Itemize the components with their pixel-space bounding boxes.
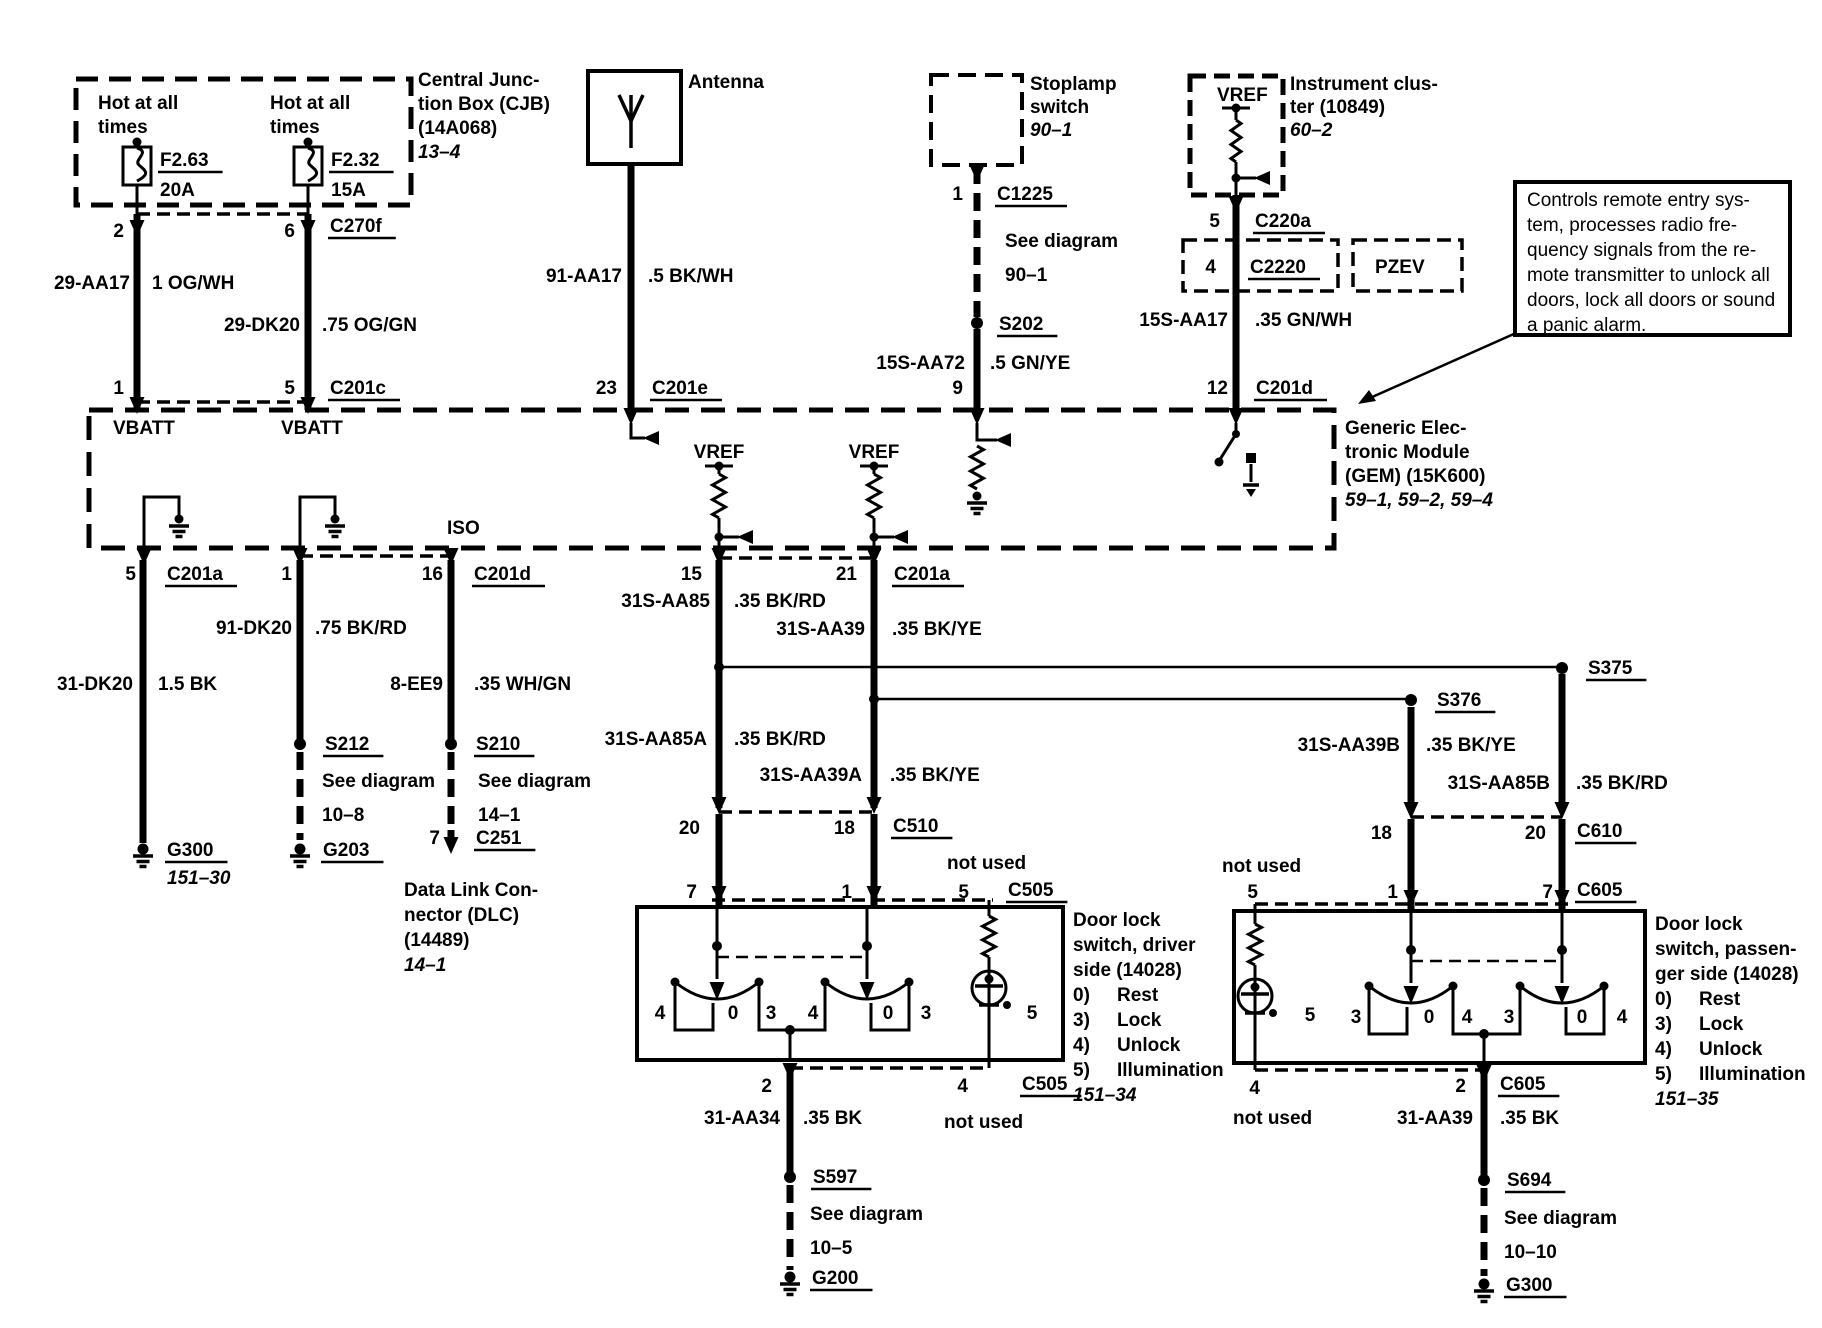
wire 29-AA17 1 OG/WH: [134, 214, 141, 410]
svg-text:0): 0): [1073, 985, 1090, 1006]
svg-text:1: 1: [952, 184, 963, 205]
svg-text:5: 5: [1247, 882, 1258, 903]
svg-text:20: 20: [679, 818, 700, 839]
svg-text:Hot at all: Hot at all: [270, 93, 350, 114]
svg-text:18: 18: [834, 818, 855, 839]
pin 2 arrow below box (passenger): [1477, 1065, 1492, 1082]
net line to S375: [719, 666, 1562, 669]
pin arrow at C605 (pin7): [1555, 890, 1570, 907]
svg-text:PZEV: PZEV: [1375, 257, 1425, 278]
rail between switches A/B: [759, 986, 825, 1030]
svg-text:not used: not used: [944, 1112, 1023, 1133]
svg-text:.35 BK/RD: .35 BK/RD: [734, 591, 826, 612]
svg-text:1: 1: [841, 882, 852, 903]
svg-text:C201d: C201d: [1256, 378, 1313, 399]
PZEV dashed box: [1353, 240, 1462, 291]
svg-text:Door lock: Door lock: [1073, 910, 1161, 931]
passenger switch C pole dashed link: [1411, 960, 1562, 963]
pin 2 arrow below box: [783, 1063, 798, 1080]
svg-text:C201a: C201a: [167, 564, 223, 585]
svg-text:See diagram: See diagram: [1504, 1208, 1617, 1229]
instrument cluster dashed box: [1190, 76, 1283, 195]
wire pin18 to passenger door lock: [1408, 819, 1415, 911]
svg-text:not used: not used: [1233, 1108, 1312, 1129]
svg-text:10–8: 10–8: [322, 805, 364, 826]
svg-text:0: 0: [728, 1003, 739, 1024]
svg-text:switch, driver: switch, driver: [1073, 935, 1196, 956]
svg-text:7: 7: [1542, 882, 1553, 903]
switch wiper arrow (x=717): [710, 982, 725, 1000]
svg-text:C605: C605: [1577, 880, 1623, 901]
pin arrow at C505 (pin1): [867, 886, 882, 903]
GEM internal resistor (stoplamp): [971, 446, 984, 489]
switch arc (x=867): [825, 982, 909, 999]
svg-text:4): 4): [1655, 1039, 1672, 1060]
wire 8-EE9 .35 WH/GN: [448, 560, 455, 740]
svg-text:VBATT: VBATT: [113, 418, 175, 439]
svg-text:4: 4: [1205, 257, 1216, 278]
svg-text:15S-AA17: 15S-AA17: [1139, 310, 1228, 331]
svg-text:S212: S212: [325, 734, 369, 755]
splice S202: [971, 317, 983, 329]
svg-text:1 OG/WH: 1 OG/WH: [152, 273, 234, 294]
svg-text:5: 5: [958, 882, 969, 903]
VREF tap (cluster): [1222, 107, 1250, 110]
svg-text:Controls remote entry sys-: Controls remote entry sys-: [1527, 190, 1750, 211]
pin arrow into GEM (pin12): [1229, 408, 1244, 425]
svg-text:151–35: 151–35: [1655, 1089, 1719, 1110]
svg-text:VREF: VREF: [849, 442, 900, 463]
note arrow to GEM: [1370, 333, 1516, 398]
svg-text:4: 4: [1249, 1078, 1260, 1099]
ground G300: [138, 844, 149, 855]
svg-text:VBATT: VBATT: [281, 418, 343, 439]
net line to S376: [874, 698, 1411, 701]
svg-text:S597: S597: [813, 1167, 857, 1188]
svg-text:tronic Module: tronic Module: [1345, 442, 1470, 463]
svg-text:4: 4: [655, 1003, 666, 1024]
wire 31S-AA39A: [871, 560, 878, 808]
pin arrow at C505 (pin7): [712, 886, 727, 903]
GEM internal switch (remote entry): [1235, 423, 1238, 432]
pin 5 stub (illumination feed): [988, 900, 991, 916]
junction on wire 31S-AA39A: [869, 694, 879, 704]
svg-text:VREF: VREF: [1217, 85, 1268, 106]
svg-text:.35 BK/YE: .35 BK/YE: [890, 765, 980, 786]
fuse F2.63: [133, 138, 142, 147]
wire 31-AA34 .35 BK: [787, 1064, 794, 1172]
svg-text:.35 BK/YE: .35 BK/YE: [1426, 735, 1516, 756]
antenna box: [588, 71, 681, 164]
svg-text:.35 BK/RD: .35 BK/RD: [734, 729, 826, 750]
svg-text:Rest: Rest: [1699, 989, 1741, 1010]
svg-text:0: 0: [883, 1003, 894, 1024]
wire to S202 (dashed): [974, 166, 981, 317]
driver switch A pole dashed link: [717, 956, 867, 959]
svg-text:C201d: C201d: [474, 564, 531, 585]
svg-text:6: 6: [284, 221, 295, 242]
wire below S210 (dashed): [448, 752, 455, 830]
svg-text:Lock: Lock: [1117, 1010, 1162, 1031]
svg-text:ger side (14028): ger side (14028): [1655, 964, 1799, 985]
svg-text:4: 4: [808, 1003, 819, 1024]
wire 91-AA17 .5 BK/WH: [628, 164, 635, 410]
svg-text:Door lock: Door lock: [1655, 914, 1743, 935]
ISO dashed line (C201d link): [300, 554, 451, 558]
svg-text:S694: S694: [1507, 1170, 1552, 1191]
connector C505 dashed line (bottom): [790, 1066, 989, 1070]
svg-text:15: 15: [681, 564, 703, 585]
connector C270f dashed line: [137, 212, 308, 216]
svg-text:(GEM) (15K600): (GEM) (15K600): [1345, 466, 1485, 487]
svg-text:16: 16: [422, 564, 443, 585]
stoplamp switch dashed box: [931, 75, 1022, 165]
switch pole wire (x=1411): [1410, 911, 1413, 947]
svg-text:times: times: [270, 117, 320, 138]
svg-text:Rest: Rest: [1117, 985, 1159, 1006]
svg-text:3): 3): [1655, 1014, 1672, 1035]
svg-text:F2.32: F2.32: [331, 150, 380, 171]
svg-text:91-DK20: 91-DK20: [216, 618, 292, 639]
Central Junction Box (CJB) dashed box: [76, 79, 411, 205]
svg-text:times: times: [98, 117, 148, 138]
svg-text:S202: S202: [999, 314, 1043, 335]
svg-text:29-AA17: 29-AA17: [54, 273, 130, 294]
rail junction to pin 2: [785, 1025, 795, 1035]
rail between switches C/D: [1453, 990, 1520, 1034]
GEM branch arrow (pin 21): [870, 533, 879, 542]
pin arrow into GEM (pin1): [130, 397, 145, 414]
svg-text:1: 1: [281, 564, 292, 585]
svg-text:ter (10849): ter (10849): [1290, 97, 1385, 118]
pin arrow into GEM (pin5): [301, 397, 316, 414]
svg-text:a panic alarm.: a panic alarm.: [1527, 315, 1646, 336]
svg-text:(14A068): (14A068): [418, 118, 497, 139]
svg-text:31-AA39: 31-AA39: [1397, 1108, 1473, 1129]
svg-text:12: 12: [1207, 378, 1228, 399]
svg-text:59–1, 59–2, 59–4: 59–1, 59–2, 59–4: [1345, 490, 1493, 511]
svg-text:G203: G203: [323, 840, 369, 861]
svg-text:.35 BK: .35 BK: [1500, 1108, 1559, 1129]
svg-text:Unlock: Unlock: [1699, 1039, 1763, 1060]
switch A outer-contact bracket: [675, 986, 713, 1030]
wire 31-AA39 .35 BK: [1481, 1066, 1488, 1175]
switch arc (x=717): [675, 982, 759, 999]
rail junction to pin 2 (passenger): [1479, 1029, 1489, 1039]
svg-text:3: 3: [766, 1003, 777, 1024]
driver illumination lamp: [972, 971, 1006, 1005]
svg-text:90–1: 90–1: [1030, 120, 1072, 141]
GEM internal ground (stoplamp): [973, 492, 982, 501]
junction on wire 31S-AA85A: [714, 662, 724, 672]
splice S694: [1478, 1174, 1490, 1186]
pin arrow at C510 (pin20): [712, 797, 727, 814]
switch D outer-contact bracket: [1566, 990, 1604, 1034]
svg-text:Central Junc-: Central Junc-: [418, 70, 539, 91]
wire 91-DK20 .75 BK/RD: [297, 560, 304, 740]
svg-text:mote transmitter to unlock all: mote transmitter to unlock all: [1527, 265, 1770, 286]
svg-text:10–5: 10–5: [810, 1238, 853, 1259]
splice S376: [1405, 694, 1417, 706]
svg-text:C201e: C201e: [652, 378, 708, 399]
svg-text:S210: S210: [476, 734, 520, 755]
svg-text:0): 0): [1655, 989, 1672, 1010]
connector C2220 dashed box: [1183, 240, 1338, 291]
VREF tap (GEM pin 15): [705, 465, 733, 468]
svg-text:Stoplamp: Stoplamp: [1030, 74, 1117, 95]
ground G300 (passenger): [1479, 1279, 1490, 1290]
svg-text:G300: G300: [1506, 1275, 1552, 1296]
svg-text:C505: C505: [1008, 880, 1054, 901]
ground G200: [785, 1272, 796, 1283]
svg-text:90–1: 90–1: [1005, 265, 1048, 286]
driver illumination resistor: [983, 916, 996, 957]
switch pole wire (x=717): [716, 907, 719, 943]
svg-text:F2.63: F2.63: [160, 150, 209, 171]
wire pin18 to door lock: [871, 814, 878, 907]
pin 5 stub (passenger illumination): [1254, 904, 1257, 924]
pin arrow into GEM (pin23): [624, 408, 639, 425]
svg-text:31S-AA85A: 31S-AA85A: [605, 729, 708, 750]
GEM stoplamp input branch: [977, 423, 997, 440]
svg-text:S376: S376: [1437, 690, 1481, 711]
pin arrow below GEM (pin 21): [867, 548, 882, 565]
cluster branch arrow: [1232, 174, 1241, 183]
wire 31S-AA39B: [1408, 707, 1415, 810]
wire 31-DK20 1.5 BK: [140, 560, 147, 843]
svg-text:.35 BK/YE: .35 BK/YE: [892, 619, 982, 640]
pin arrow at C605 (pin1): [1404, 890, 1419, 907]
svg-text:.75 OG/GN: .75 OG/GN: [322, 315, 417, 336]
svg-text:1.5 BK: 1.5 BK: [158, 674, 217, 695]
svg-text:15S-AA72: 15S-AA72: [876, 353, 965, 374]
pin arrow below GEM (C201a pin5): [137, 548, 152, 565]
svg-text:See diagram: See diagram: [810, 1204, 923, 1225]
svg-text:3: 3: [921, 1003, 932, 1024]
switch wiper arrow (x=1411): [1404, 986, 1419, 1004]
door lock switch driver side box: [637, 907, 1063, 1060]
pin arrow below GEM (C201d pin16): [444, 548, 459, 565]
connector C510 dashed line: [719, 810, 874, 814]
svg-text:Illumination: Illumination: [1117, 1060, 1224, 1081]
svg-text:5): 5): [1655, 1064, 1672, 1085]
svg-text:18: 18: [1371, 823, 1392, 844]
internal ground hook for pin 1 C201d: [300, 497, 335, 548]
svg-text:not used: not used: [1222, 856, 1301, 877]
svg-text:5: 5: [1027, 1003, 1038, 1024]
svg-text:31S-AA85B: 31S-AA85B: [1448, 773, 1550, 794]
svg-text:2: 2: [761, 1076, 772, 1097]
svg-text:C270f: C270f: [330, 216, 382, 237]
fuse F2.32: [304, 138, 313, 147]
splice S212: [294, 738, 306, 750]
connector C610 dashed line: [1411, 815, 1562, 819]
pin arrow at C510 (pin18): [867, 797, 882, 814]
connector C505 dashed line (top): [712, 898, 993, 902]
svg-text:Instrument clus-: Instrument clus-: [1290, 74, 1438, 95]
svg-text:31-DK20: 31-DK20: [57, 674, 133, 695]
svg-text:.35 BK: .35 BK: [803, 1108, 862, 1129]
pin arrow below stoplamp box: [970, 165, 985, 182]
svg-text:8-EE9: 8-EE9: [390, 674, 443, 695]
pin arrow at C610 (pin18): [1404, 802, 1419, 819]
passenger illumination lamp: [1238, 979, 1272, 1013]
ground G203: [295, 844, 306, 855]
connector C201a dashed line (pins 15/21): [719, 556, 874, 560]
svg-text:not used: not used: [947, 853, 1026, 874]
GEM antenna input branch: [631, 423, 645, 438]
pin arrow at C220a: [1229, 196, 1244, 213]
wire 29-DK20 .75 OG/GN: [305, 214, 312, 410]
svg-text:23: 23: [596, 378, 617, 399]
Generic Electronic Module (GEM) dashed box: [89, 410, 1334, 548]
svg-text:C510: C510: [893, 816, 938, 837]
svg-text:C1225: C1225: [997, 184, 1053, 205]
svg-text:Data Link Con-: Data Link Con-: [404, 880, 538, 901]
svg-text:See diagram: See diagram: [478, 771, 591, 792]
svg-text:C505: C505: [1022, 1074, 1068, 1095]
svg-text:14–1: 14–1: [478, 805, 521, 826]
wire pin20 to passenger door lock: [1559, 819, 1566, 911]
GEM internal resistor (pin 21): [873, 466, 876, 474]
svg-text:nector (DLC): nector (DLC): [404, 905, 519, 926]
note box: [1515, 182, 1790, 335]
svg-text:31S-AA39A: 31S-AA39A: [760, 765, 863, 786]
splice S210: [445, 738, 457, 750]
svg-text:10–10: 10–10: [1504, 1242, 1557, 1263]
wire 31S-AA85B: [1559, 674, 1566, 810]
wire 31S-AA85A: [716, 560, 723, 808]
svg-text:.35 GN/WH: .35 GN/WH: [1255, 310, 1352, 331]
svg-text:2: 2: [1455, 1076, 1466, 1097]
svg-text:7: 7: [686, 882, 697, 903]
svg-text:C605: C605: [1500, 1074, 1546, 1095]
splice S597: [784, 1171, 796, 1183]
svg-text:C251: C251: [476, 828, 522, 849]
connector C605 dashed line (top): [1255, 902, 1570, 906]
svg-text:3: 3: [1351, 1007, 1362, 1028]
svg-text:4: 4: [1617, 1007, 1628, 1028]
svg-text:3): 3): [1073, 1010, 1090, 1031]
svg-text:31-AA34: 31-AA34: [704, 1108, 780, 1129]
switch arc (x=1411): [1369, 986, 1453, 1003]
svg-text:21: 21: [836, 564, 858, 585]
svg-text:Unlock: Unlock: [1117, 1035, 1181, 1056]
connector C605 dashed line (bottom): [1255, 1068, 1484, 1072]
svg-text:tem, processes radio fre-: tem, processes radio fre-: [1527, 215, 1737, 236]
svg-text:31S-AA39: 31S-AA39: [776, 619, 865, 640]
wire pin20 to door lock: [716, 814, 723, 907]
GEM branch arrow (pin 15): [715, 533, 724, 542]
svg-text:4: 4: [1462, 1007, 1473, 1028]
passenger illumination resistor: [1249, 924, 1262, 965]
svg-text:C610: C610: [1577, 821, 1622, 842]
svg-text:4: 4: [957, 1076, 968, 1097]
svg-text:C201a: C201a: [894, 564, 950, 585]
svg-text:20A: 20A: [160, 180, 195, 201]
svg-text:(14489): (14489): [404, 930, 470, 951]
svg-text:tion Box (CJB): tion Box (CJB): [418, 94, 550, 115]
switch wiper arrow (x=1562): [1555, 986, 1570, 1004]
svg-text:1: 1: [113, 378, 124, 399]
VREF tap (GEM pin 21): [860, 465, 888, 468]
svg-text:Hot at all: Hot at all: [98, 93, 178, 114]
svg-text:0: 0: [1577, 1007, 1588, 1028]
svg-text:20: 20: [1525, 823, 1546, 844]
cluster resistor: [1235, 108, 1238, 120]
svg-text:Generic Elec-: Generic Elec-: [1345, 418, 1466, 439]
svg-text:side (14028): side (14028): [1073, 960, 1182, 981]
svg-text:13–4: 13–4: [418, 142, 461, 163]
svg-text:15A: 15A: [331, 180, 366, 201]
svg-text:switch: switch: [1030, 97, 1089, 118]
splice S375: [1556, 662, 1568, 674]
door lock switch passenger side box: [1234, 911, 1645, 1063]
switch wiper arrow (x=867): [860, 982, 875, 1000]
svg-text:2: 2: [113, 221, 124, 242]
switch pole wire (x=867): [866, 907, 869, 943]
svg-text:0: 0: [1424, 1007, 1435, 1028]
svg-text:4): 4): [1073, 1035, 1090, 1056]
svg-text:G300: G300: [167, 840, 213, 861]
svg-text:C220a: C220a: [1255, 211, 1311, 232]
svg-text:Antenna: Antenna: [688, 72, 764, 93]
svg-text:C201c: C201c: [330, 378, 386, 399]
GEM internal resistor (pin 15): [718, 466, 721, 474]
svg-text:doors, lock all doors or sound: doors, lock all doors or sound: [1527, 290, 1775, 311]
svg-text:31S-AA85: 31S-AA85: [621, 591, 710, 612]
svg-text:14–1: 14–1: [404, 955, 446, 976]
svg-text:Lock: Lock: [1699, 1014, 1744, 1035]
svg-text:5: 5: [1305, 1005, 1316, 1026]
svg-text:1: 1: [1387, 882, 1398, 903]
svg-text:.5 GN/YE: .5 GN/YE: [990, 353, 1070, 374]
svg-text:switch, passen-: switch, passen-: [1655, 939, 1797, 960]
svg-text:5: 5: [284, 378, 295, 399]
svg-text:G200: G200: [812, 1268, 858, 1289]
svg-text:5: 5: [1209, 211, 1220, 232]
svg-text:5: 5: [125, 564, 136, 585]
svg-text:60–2: 60–2: [1290, 120, 1333, 141]
svg-text:9: 9: [952, 378, 963, 399]
svg-text:3: 3: [1504, 1007, 1515, 1028]
svg-text:31S-AA39B: 31S-AA39B: [1298, 735, 1400, 756]
GEM switch fixed contact to ground: [1246, 453, 1256, 463]
wire 15S-AA72 .5 GN/YE: [974, 329, 981, 410]
pin arrow below GEM (C201d pin1): [293, 548, 308, 565]
wire below S212 (dashed): [297, 752, 304, 840]
pin arrow below GEM (pin 15): [712, 548, 727, 565]
svg-text:S375: S375: [1588, 658, 1633, 679]
svg-text:ISO: ISO: [447, 518, 480, 539]
svg-text:.35 WH/GN: .35 WH/GN: [474, 674, 571, 695]
svg-text:.35 BK/RD: .35 BK/RD: [1576, 773, 1668, 794]
wire end arrow at C251: [448, 830, 455, 840]
svg-text:See diagram: See diagram: [1005, 231, 1118, 252]
switch arc (x=1562): [1520, 986, 1604, 1003]
svg-text:VREF: VREF: [694, 442, 745, 463]
svg-text:quency signals from the re-: quency signals from the re-: [1527, 240, 1756, 261]
svg-text:7: 7: [429, 828, 440, 849]
antenna symbol: [629, 95, 633, 148]
switch B outer-contact bracket: [871, 986, 909, 1030]
svg-text:.75 BK/RD: .75 BK/RD: [315, 618, 407, 639]
wire below S597 (dashed): [787, 1185, 794, 1270]
svg-text:91-AA17: 91-AA17: [546, 266, 622, 287]
svg-text:Illumination: Illumination: [1699, 1064, 1806, 1085]
wire below S694 (dashed): [1481, 1188, 1488, 1276]
switch C outer-contact bracket: [1369, 990, 1407, 1034]
